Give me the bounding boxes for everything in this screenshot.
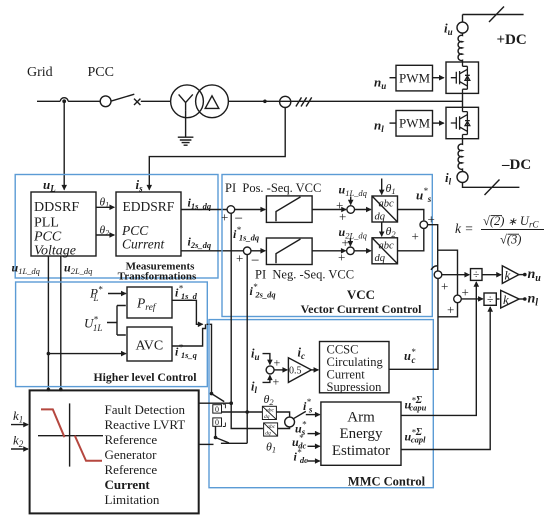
- svg-text:u*s: u*s: [416, 186, 432, 204]
- block abc-dq 1: [372, 196, 398, 222]
- wire udc ref to Arm: [308, 445, 320, 447]
- svg-text:nu: nu: [374, 75, 386, 92]
- svg-text:Higher level Control: Higher level Control: [93, 370, 197, 384]
- svg-text:Voltage: Voltage: [34, 244, 76, 259]
- node dot after transformer: [263, 100, 267, 104]
- summing junction S4: [347, 247, 355, 255]
- node dot i2s ref junction: [245, 410, 249, 414]
- summing junction nu: [434, 271, 442, 279]
- svg-text:+: +: [221, 210, 228, 225]
- summing junction nl: [454, 295, 462, 303]
- svg-text:–DC: –DC: [501, 157, 531, 173]
- wire fault out2: [199, 443, 214, 445]
- wire us ref to Arm: [308, 433, 320, 435]
- svg-text:iu: iu: [251, 347, 260, 363]
- wire AVC output: [172, 324, 206, 346]
- breaker CB circle: [100, 96, 111, 107]
- wire il into sum: [263, 375, 270, 382]
- blue box MMC Control: [209, 320, 433, 488]
- wire top to iu sensor: [462, 15, 464, 23]
- node dot u2L at fault box: [59, 388, 63, 392]
- converter valve box lower: [446, 107, 479, 138]
- svg-text:il: il: [445, 170, 452, 187]
- svg-text:i1s_dq: i1s_dq: [188, 196, 212, 212]
- svg-text:Current: Current: [105, 477, 151, 492]
- blue box Higher level Control: [16, 282, 208, 387]
- wire main AC line segment 3: [141, 100, 171, 102]
- svg-text:Transformations: Transformations: [118, 271, 197, 283]
- svg-text:u*Σcapu: u*Σcapu: [405, 395, 427, 413]
- wire u1L_dq into S3: [350, 197, 352, 205]
- svg-text:EDDSRF: EDDSRF: [123, 199, 175, 214]
- transformer wye symbol: [179, 94, 193, 110]
- block PWM upper: [396, 65, 433, 91]
- svg-text:PCC: PCC: [88, 65, 114, 80]
- IGBT lower symbol: [451, 107, 470, 138]
- wire transformer neutral to ground: [185, 110, 187, 137]
- wire split to nl sum branch: [438, 250, 458, 294]
- wire u2L_dq down to fault box: [60, 256, 62, 390]
- svg-text:i*2s_dq: i*2s_dq: [250, 282, 277, 300]
- svg-text:Arm: Arm: [347, 410, 375, 426]
- svg-text:k2: k2: [13, 433, 24, 450]
- wire uL tap vertical: [63, 101, 65, 189]
- svg-text:+: +: [339, 209, 346, 224]
- wire -DC line: [463, 183, 520, 188]
- svg-text:PWM: PWM: [399, 116, 431, 131]
- svg-text:+: +: [342, 235, 349, 250]
- wire PI2 to S4: [312, 250, 346, 252]
- wire nl to PWM: [390, 122, 397, 124]
- inductor arm upper: [458, 33, 462, 62]
- svg-text:+: +: [273, 375, 280, 389]
- svg-text:θ1: θ1: [386, 181, 396, 196]
- block abcdq small 2: [264, 423, 278, 436]
- wire theta1 into abcdq1: [381, 179, 383, 195]
- wire fault out1: [199, 402, 232, 404]
- wire i2s ref up to S2: [246, 255, 248, 412]
- svg-text:Reactive LVRT: Reactive LVRT: [105, 417, 186, 432]
- current sensor iu circle: [457, 22, 468, 33]
- svg-text:Reference: Reference: [105, 432, 158, 447]
- svg-text:Energy: Energy: [339, 426, 383, 442]
- summing junction us: [420, 221, 428, 229]
- svg-text:+: +: [447, 302, 454, 317]
- wire Pref output: [172, 300, 203, 324]
- svg-text:abc: abc: [267, 424, 276, 430]
- node dot u1L at fault box: [47, 388, 51, 392]
- svg-text:dq: dq: [375, 253, 386, 264]
- wire u1L_dq down to fault box: [47, 256, 49, 390]
- wire k1 input: [11, 424, 28, 426]
- wire PWM to valve upper: [433, 77, 444, 79]
- wire k to nl: [519, 298, 524, 300]
- svg-text:iu: iu: [444, 21, 453, 38]
- svg-text:abc: abc: [379, 241, 395, 252]
- svg-text:u*Σcapl: u*Σcapl: [405, 427, 427, 445]
- slash -DC: [485, 180, 500, 196]
- wire S4 to abcdq2: [354, 250, 371, 252]
- svg-text:θ2: θ2: [264, 392, 275, 407]
- wire theta2 DDSRF to EDDSRF: [96, 234, 114, 236]
- wire abcdq small 2 to selector: [278, 427, 290, 429]
- gain k upper: [502, 266, 519, 284]
- wire ucapl to divider lower: [401, 307, 490, 450]
- block DDSRF PLL: [31, 192, 96, 256]
- svg-text:θ2: θ2: [100, 225, 110, 238]
- svg-text:0.5: 0.5: [289, 366, 302, 377]
- wire main AC line left segment: [37, 100, 60, 102]
- hop tick at nu sum: [431, 266, 438, 270]
- svg-text:dq: dq: [264, 414, 270, 420]
- wire nu to PWM: [390, 77, 397, 79]
- wire sum to 0.5 gain: [274, 369, 287, 371]
- current sensor is circle: [280, 96, 291, 107]
- svg-text:PLL: PLL: [34, 216, 59, 231]
- transformer delta symbol: [205, 96, 219, 109]
- wire main AC line segment 4: [228, 100, 462, 102]
- svg-text:u*c: u*c: [404, 347, 416, 365]
- block PI positive sequence: [266, 196, 312, 223]
- svg-text:is: is: [136, 177, 144, 194]
- wire i1s ref down to abcdq small 2: [231, 403, 263, 428]
- svg-text:u1L_dq: u1L_dq: [339, 183, 368, 199]
- switch arm selector: [293, 411, 305, 418]
- wire theta1 DDSRF to EDDSRF: [96, 206, 114, 208]
- svg-text:θ1: θ1: [266, 440, 276, 455]
- red curve upper: [41, 409, 65, 437]
- block abcdq small 1: [262, 406, 276, 419]
- block Pref: [127, 287, 172, 318]
- svg-text:i*1s_dq: i*1s_dq: [233, 225, 260, 243]
- wire nl sum to divider: [461, 298, 483, 300]
- svg-text:Limitation: Limitation: [105, 492, 160, 507]
- block CCSC: [320, 342, 390, 393]
- svg-text:Generator: Generator: [105, 447, 158, 462]
- selector circle: [285, 417, 295, 427]
- wire abcdq1 to us sum: [398, 210, 424, 221]
- wire i2s ref down to lower switch: [246, 412, 248, 443]
- svg-text:U*1L: U*1L: [84, 315, 102, 334]
- wire uc branch to nl sum: [438, 303, 458, 317]
- svg-text:√(3): √(3): [500, 233, 521, 247]
- red curve lower: [75, 436, 102, 461]
- svg-text:PWM: PWM: [399, 71, 431, 86]
- svg-text:i*s: i*s: [303, 397, 313, 415]
- svg-text:u1L_dq: u1L_dq: [12, 261, 41, 277]
- node PCC tap hop: [60, 98, 68, 102]
- svg-text:+: +: [412, 229, 419, 244]
- wire u2L_dq into S4: [349, 238, 351, 246]
- svg-text:0: 0: [215, 405, 219, 414]
- svg-text:+: +: [338, 250, 345, 265]
- svg-text:AVC: AVC: [136, 339, 164, 354]
- wire i2s_dq to sum: [181, 250, 243, 252]
- ground symbol: [178, 137, 194, 145]
- wire merged ref to switch: [207, 324, 212, 393]
- gain k lower: [501, 290, 519, 308]
- wire k2 input: [11, 448, 28, 450]
- block PWM lower: [396, 111, 433, 137]
- wire iu into sum: [263, 354, 270, 365]
- wire divider to k gain upper: [482, 274, 501, 276]
- svg-text:+DC: +DC: [497, 32, 527, 48]
- svg-text:Current: Current: [122, 237, 166, 252]
- wire i1s ref up to S1: [230, 213, 232, 403]
- svg-text:i*1s_q: i*1s_q: [175, 343, 198, 361]
- svg-text:VCC: VCC: [347, 287, 375, 302]
- wire abcdq2 to us sum: [398, 229, 424, 251]
- wire abcdq small 1 to selector: [276, 412, 289, 417]
- svg-text:k =: k =: [455, 221, 473, 236]
- wire ucapu to divider upper: [401, 282, 476, 415]
- svg-text:uL: uL: [43, 177, 56, 194]
- wire PWM to valve lower: [433, 122, 444, 124]
- svg-text:+: +: [462, 285, 469, 300]
- svg-text:i*1s_d: i*1s_d: [175, 284, 198, 302]
- svg-text:k: k: [505, 268, 511, 283]
- svg-text:÷: ÷: [473, 269, 479, 281]
- blue box VCC: [222, 175, 432, 317]
- svg-text:÷: ÷: [487, 294, 493, 306]
- switch arm ref select upper: [212, 394, 225, 402]
- svg-text:Vector Current Control: Vector Current Control: [301, 302, 423, 316]
- svg-text:nu: nu: [528, 267, 542, 284]
- svg-text:−: −: [251, 253, 259, 269]
- svg-text:k1: k1: [13, 408, 23, 425]
- svg-text:+: +: [441, 279, 448, 294]
- svg-text:abc: abc: [379, 199, 395, 210]
- wire theta2 into abcdq2: [381, 222, 383, 236]
- svg-text:P*L: P*L: [89, 285, 103, 304]
- wire PL into Pref: [108, 293, 126, 295]
- fault X mark: [134, 99, 140, 105]
- wire lower switch to i2s ref: [221, 442, 247, 444]
- transformer T1 wye circle: [171, 85, 204, 118]
- svg-text:u2L_dq: u2L_dq: [64, 261, 93, 277]
- svg-text:Supression: Supression: [327, 380, 383, 394]
- svg-text:+: +: [236, 251, 243, 266]
- three-phase slashes: [296, 97, 312, 106]
- svg-text:Pref: Pref: [136, 296, 157, 314]
- svg-text:Grid: Grid: [27, 65, 53, 80]
- svg-text:√(2) ∗ UrC: √(2) ∗ UrC: [483, 214, 539, 230]
- svg-text:Reference: Reference: [105, 462, 158, 477]
- svg-text:DDSRF: DDSRF: [34, 200, 79, 215]
- svg-text:nl: nl: [528, 292, 539, 309]
- wire is ref to Arm: [306, 414, 320, 416]
- wire split to nu sum: [437, 250, 439, 270]
- svg-text:abc: abc: [266, 408, 275, 414]
- switch arm on AC line: [111, 94, 134, 101]
- wire k to nu: [519, 274, 524, 276]
- block Fault Detection: [30, 390, 199, 513]
- summing junction S3: [347, 206, 355, 214]
- svg-text:+: +: [274, 356, 281, 370]
- wire idc ref to Arm: [307, 460, 320, 462]
- IGBT upper symbol: [451, 62, 470, 93]
- wire S1 to PI1: [235, 209, 266, 211]
- node PCC tap dot: [62, 99, 66, 103]
- wire S3 to abcdq1: [355, 209, 371, 211]
- wire U1L fork: [107, 306, 126, 336]
- wire PI1 to S3: [312, 209, 346, 211]
- wire zero1 to i2s junction: [222, 411, 263, 413]
- wire ic to CCSC: [311, 369, 318, 371]
- svg-text:PCC: PCC: [33, 229, 62, 244]
- current sensor il circle: [457, 172, 468, 183]
- wire +DC top line: [463, 14, 524, 16]
- gain 0.5: [288, 358, 311, 383]
- svg-text:0: 0: [215, 418, 219, 427]
- node dot ref switch pivot: [210, 392, 214, 396]
- inductor arm lower: [458, 139, 462, 172]
- svg-text:ic: ic: [298, 346, 305, 362]
- block AVC: [127, 327, 172, 361]
- wire u1L to AVC input: [48, 353, 125, 355]
- wire uc to nu sum: [389, 279, 438, 370]
- wire is measurement path: [149, 108, 285, 190]
- wire main AC line segment 2: [68, 100, 100, 102]
- summing junction S2: [243, 247, 251, 255]
- svg-text:il: il: [251, 380, 257, 396]
- svg-text:nl: nl: [374, 118, 384, 135]
- wire S2 to PI2: [251, 250, 265, 252]
- svg-text:dq: dq: [265, 431, 271, 437]
- slash +DC: [489, 7, 504, 23]
- axis horizontal LVRT graph: [38, 435, 103, 437]
- blue box Measurements Transformations: [15, 175, 218, 279]
- svg-text:k: k: [503, 292, 509, 307]
- summing junction circulating: [266, 366, 274, 374]
- divider block lower: [484, 293, 496, 305]
- converter valve box upper: [446, 62, 479, 93]
- wire nu sum to divider: [442, 274, 469, 276]
- svg-text:MMC Control: MMC Control: [348, 475, 426, 489]
- block abc-dq 2: [372, 238, 398, 264]
- wire us sum to split: [428, 225, 438, 251]
- axis vertical LVRT graph: [69, 403, 71, 466]
- svg-text:dq: dq: [375, 212, 386, 223]
- switch arm ref select lower: [216, 438, 229, 443]
- block EDDSRF: [116, 192, 181, 256]
- summing junction S1: [227, 206, 235, 214]
- block PI negative sequence: [266, 238, 312, 265]
- wire i1s_dq to sum: [181, 209, 227, 211]
- svg-text:PI Neg. -Seq. VCC: PI Neg. -Seq. VCC: [255, 268, 354, 282]
- svg-text:Estimator: Estimator: [332, 443, 390, 459]
- zero block 1: [213, 405, 222, 413]
- transformer T1 delta circle: [196, 85, 229, 118]
- svg-text:θ1: θ1: [100, 197, 110, 210]
- zero block 2: [213, 418, 222, 426]
- block Arm Energy Estimator: [321, 402, 401, 465]
- wire divider to k gain lower: [496, 298, 499, 300]
- svg-text:i2s_dq: i2s_dq: [188, 235, 212, 251]
- stub zero2 to lower switch dot: [215, 426, 217, 437]
- node dot i1s ref junction: [229, 401, 233, 405]
- svg-text:θ2: θ2: [386, 224, 397, 239]
- divider block upper: [471, 269, 483, 281]
- svg-text:Fault Detection: Fault Detection: [105, 402, 186, 417]
- wire valve to valve through AC node: [462, 93, 464, 107]
- svg-text:PI Pos. -Seq. VCC: PI Pos. -Seq. VCC: [225, 181, 321, 195]
